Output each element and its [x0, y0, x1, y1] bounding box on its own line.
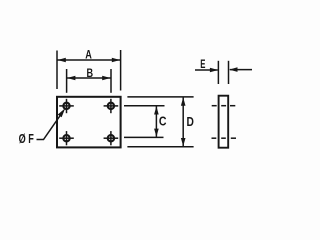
svg-text:D: D	[187, 115, 194, 129]
svg-text:Ø F: Ø F	[19, 131, 34, 146]
dimension A extension line left	[56, 51, 58, 90]
dimension D arrowhead bottom	[181, 138, 186, 146]
hole top-left	[59, 99, 74, 113]
dimension E right arrow line	[230, 69, 252, 71]
dimension D extension line top	[127, 96, 193, 98]
dimension D extension line bottom	[127, 146, 193, 148]
dimension D arrowhead top	[181, 97, 186, 105]
dimension A arrowhead right	[112, 58, 120, 63]
dimension C arrowhead top	[154, 106, 159, 114]
dimension B extension line left	[66, 69, 68, 93]
svg-text:B: B	[87, 66, 94, 80]
dimension C extension line bottom	[124, 136, 164, 138]
dimension B line	[67, 77, 110, 79]
svg-text:C: C	[159, 114, 167, 128]
dimension E left arrowhead	[210, 68, 218, 73]
side view centerline top	[212, 105, 236, 107]
dimension A line	[58, 59, 121, 61]
dimension B extension line right	[110, 69, 112, 93]
side view centerline bottom	[212, 137, 237, 139]
dimension E left arrow line	[195, 69, 218, 71]
dimension C extension line top	[124, 105, 165, 107]
dimension C line	[155, 106, 157, 137]
dimension B arrowhead right	[102, 76, 110, 81]
leader line for F	[37, 116, 61, 140]
dimension C arrowhead bottom	[154, 129, 159, 137]
leader arrowhead at hole	[58, 108, 66, 117]
dimension A extension line right	[120, 50, 122, 91]
dimension D line	[182, 97, 184, 146]
dimension A arrowhead left	[58, 58, 66, 63]
dimension E extension line left	[217, 61, 219, 84]
dimension E right arrowhead	[229, 67, 237, 72]
svg-text:E: E	[200, 57, 205, 71]
hole bottom-right	[104, 131, 119, 145]
dimension E extension line right	[228, 61, 230, 84]
hole top-right	[104, 99, 119, 113]
dimension B arrowhead left	[67, 76, 75, 81]
hole bottom-left	[59, 131, 74, 145]
svg-text:A: A	[85, 48, 92, 62]
plate front view outline	[57, 97, 121, 148]
side view outline	[219, 96, 229, 148]
